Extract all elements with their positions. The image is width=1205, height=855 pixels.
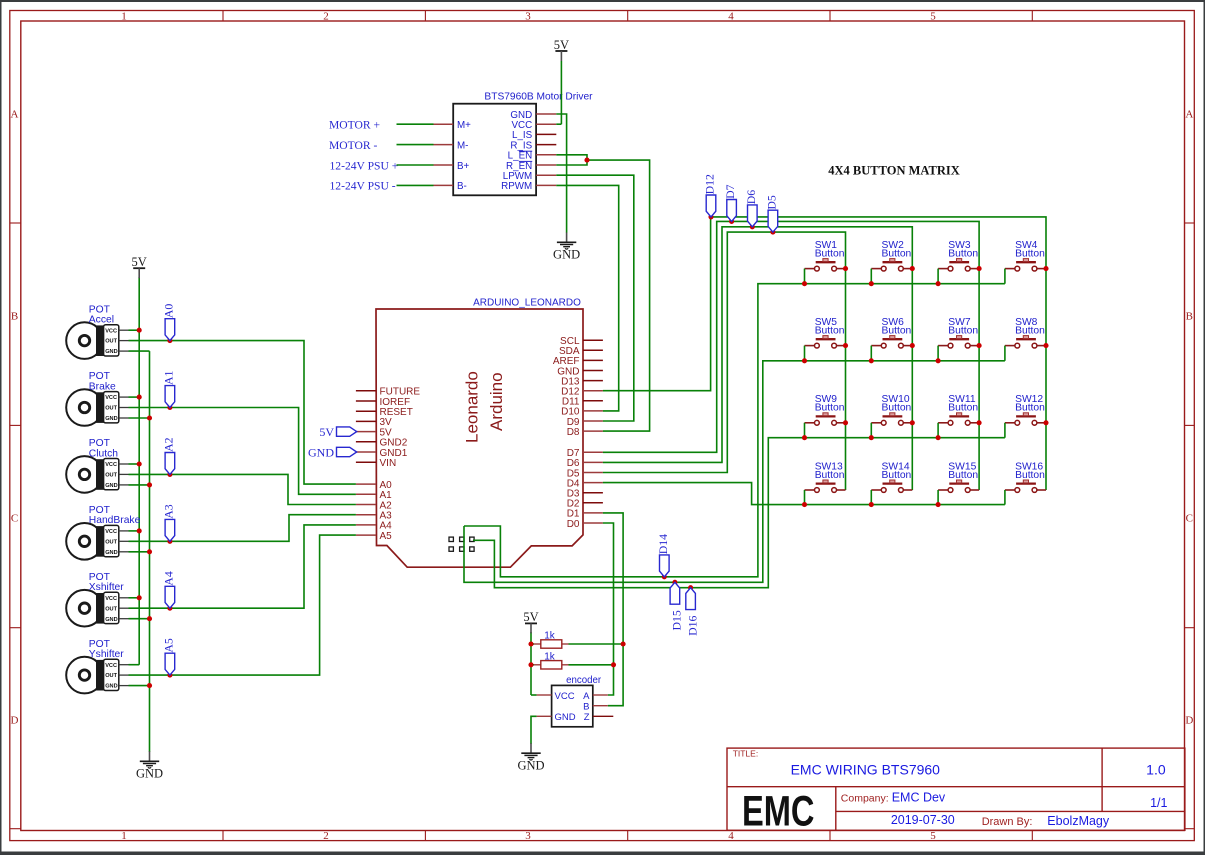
svg-text:GND: GND: [105, 416, 117, 422]
svg-text:Button: Button: [882, 403, 912, 414]
svg-text:GND: GND: [136, 767, 163, 781]
svg-text:1k: 1k: [544, 630, 556, 641]
svg-text:Company:: Company:: [841, 792, 889, 804]
svg-text:A4: A4: [162, 571, 176, 586]
svg-text:C: C: [1186, 513, 1193, 525]
svg-text:Button: Button: [1015, 249, 1045, 260]
svg-text:EMC Dev: EMC Dev: [892, 790, 946, 804]
svg-text:D0: D0: [567, 519, 580, 530]
svg-text:2019-07-30: 2019-07-30: [891, 813, 955, 827]
svg-text:1/1: 1/1: [1150, 796, 1167, 810]
svg-text:GND: GND: [308, 446, 334, 460]
svg-text:M+: M+: [457, 120, 471, 131]
svg-text:Accel: Accel: [89, 315, 114, 326]
svg-text:VCC: VCC: [105, 596, 117, 602]
svg-text:5V: 5V: [132, 255, 147, 269]
svg-text:MOTOR -: MOTOR -: [329, 139, 378, 152]
svg-text:RPWM: RPWM: [501, 181, 532, 192]
svg-text:EMC WIRING BTS7960: EMC WIRING BTS7960: [791, 762, 941, 778]
svg-text:B-: B-: [457, 181, 467, 192]
svg-text:D15: D15: [670, 610, 684, 630]
svg-text:Z: Z: [584, 712, 590, 723]
svg-text:GND: GND: [105, 617, 117, 623]
svg-text:OUT: OUT: [105, 473, 117, 479]
svg-text:4X4 BUTTON MATRIX: 4X4 BUTTON MATRIX: [828, 164, 960, 178]
svg-text:5: 5: [930, 830, 936, 842]
svg-text:A: A: [11, 109, 19, 121]
svg-text:1: 1: [121, 10, 127, 22]
svg-text:OUT: OUT: [105, 606, 117, 612]
svg-text:Button: Button: [815, 249, 845, 260]
svg-text:A5: A5: [380, 531, 393, 542]
svg-text:Button: Button: [882, 470, 912, 481]
svg-text:A5: A5: [162, 638, 176, 653]
svg-text:A: A: [1185, 109, 1193, 121]
svg-text:5V: 5V: [554, 38, 569, 52]
svg-text:5V: 5V: [523, 610, 538, 624]
svg-text:C: C: [11, 513, 18, 525]
svg-text:3: 3: [525, 830, 531, 842]
svg-text:TITLE:: TITLE:: [733, 749, 759, 759]
svg-text:Drawn By:: Drawn By:: [982, 816, 1033, 828]
svg-text:D7: D7: [723, 184, 737, 199]
svg-text:VCC: VCC: [105, 462, 117, 468]
svg-text:A3: A3: [162, 504, 176, 519]
svg-text:Button: Button: [882, 326, 912, 337]
svg-text:Button: Button: [815, 326, 845, 337]
svg-text:OUT: OUT: [105, 339, 117, 345]
svg-text:VCC: VCC: [555, 691, 575, 702]
svg-text:Button: Button: [948, 470, 978, 481]
svg-text:MOTOR +: MOTOR +: [329, 119, 380, 132]
svg-text:D: D: [1185, 715, 1193, 727]
svg-text:Button: Button: [815, 470, 845, 481]
svg-text:Button: Button: [1015, 403, 1045, 414]
svg-text:GND: GND: [105, 483, 117, 489]
svg-text:D6: D6: [744, 190, 758, 205]
svg-text:Arduino: Arduino: [487, 372, 506, 431]
svg-text:A0: A0: [162, 304, 176, 319]
svg-text:GND: GND: [105, 550, 117, 556]
svg-text:Button: Button: [948, 403, 978, 414]
svg-text:4: 4: [728, 830, 734, 842]
svg-text:2: 2: [323, 10, 329, 22]
svg-text:ARDUINO_LEONARDO: ARDUINO_LEONARDO: [473, 298, 581, 309]
svg-text:12-24V PSU +: 12-24V PSU +: [330, 159, 399, 172]
svg-text:VCC: VCC: [105, 395, 117, 401]
svg-text:Clutch: Clutch: [89, 448, 118, 459]
svg-text:D5: D5: [765, 195, 779, 210]
svg-text:3: 3: [525, 10, 531, 22]
svg-text:Leonardo: Leonardo: [463, 371, 482, 443]
svg-text:1.0: 1.0: [1146, 762, 1166, 778]
svg-text:HandBrake: HandBrake: [89, 515, 141, 526]
svg-text:VCC: VCC: [105, 663, 117, 669]
svg-text:Xshifter: Xshifter: [89, 582, 124, 593]
svg-text:Button: Button: [948, 326, 978, 337]
svg-text:GND: GND: [555, 712, 576, 723]
svg-text:A2: A2: [162, 437, 176, 452]
svg-text:GND: GND: [553, 248, 580, 262]
svg-text:Button: Button: [1015, 326, 1045, 337]
svg-text:OUT: OUT: [105, 539, 117, 545]
svg-text:encoder: encoder: [566, 675, 602, 686]
svg-text:B: B: [11, 311, 18, 323]
svg-text:A: A: [583, 691, 590, 702]
svg-text:4: 4: [728, 10, 734, 22]
svg-text:A1: A1: [162, 370, 176, 385]
svg-text:M-: M-: [457, 140, 468, 151]
svg-text:EbolzMagy: EbolzMagy: [1047, 814, 1110, 828]
svg-text:GND: GND: [105, 684, 117, 690]
svg-text:5V: 5V: [319, 425, 334, 439]
svg-text:D: D: [11, 715, 19, 727]
svg-text:OUT: OUT: [105, 673, 117, 679]
svg-text:BTS7960B Motor Driver: BTS7960B Motor Driver: [484, 92, 593, 103]
svg-text:GND: GND: [517, 758, 544, 772]
svg-text:D12: D12: [703, 174, 717, 194]
svg-text:VCC: VCC: [105, 529, 117, 535]
svg-text:Brake: Brake: [89, 381, 116, 392]
svg-text:OUT: OUT: [105, 406, 117, 412]
svg-text:B: B: [583, 701, 589, 712]
svg-text:5: 5: [930, 10, 936, 22]
svg-text:Button: Button: [815, 403, 845, 414]
svg-text:2: 2: [323, 830, 329, 842]
svg-text:1k: 1k: [544, 651, 556, 662]
svg-text:Button: Button: [948, 249, 978, 260]
svg-text:D16: D16: [685, 616, 699, 636]
svg-text:B+: B+: [457, 161, 470, 172]
svg-text:D8: D8: [567, 427, 580, 438]
svg-text:B: B: [1186, 311, 1193, 323]
svg-text:EMC: EMC: [742, 787, 815, 835]
svg-text:1: 1: [121, 830, 127, 842]
svg-text:Button: Button: [882, 249, 912, 260]
svg-text:Button: Button: [1015, 470, 1045, 481]
svg-text:VIN: VIN: [380, 458, 397, 469]
svg-text:GND: GND: [105, 349, 117, 355]
svg-text:12-24V PSU -: 12-24V PSU -: [330, 180, 396, 193]
svg-text:VCC: VCC: [105, 328, 117, 334]
svg-text:D14: D14: [656, 534, 670, 554]
svg-text:Yshifter: Yshifter: [89, 649, 124, 660]
